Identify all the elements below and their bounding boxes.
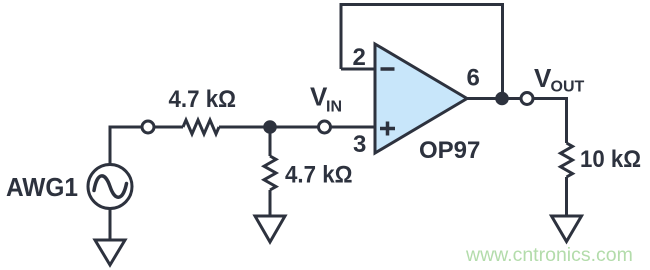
svg-text:3: 3	[353, 131, 366, 158]
svg-text:6: 6	[467, 65, 480, 92]
wire pin2 stub	[341, 68, 375, 71]
svg-text:OUT: OUT	[551, 79, 585, 96]
terminal circle VIN	[319, 121, 331, 133]
op-amp plus sign	[380, 122, 395, 136]
resistor R1 4.7k horizontal	[183, 120, 219, 134]
source AWG1 circle	[88, 165, 132, 209]
svg-text:AWG1: AWG1	[6, 172, 78, 202]
ground middle	[255, 216, 285, 242]
svg-text:4.7 kΩ: 4.7 kΩ	[169, 86, 237, 113]
svg-text:V: V	[534, 63, 552, 93]
junction node output	[495, 92, 509, 106]
svg-text:OP97: OP97	[419, 137, 480, 164]
ground AWG1	[95, 240, 125, 265]
sine wave	[94, 176, 127, 197]
resistor R3 10k vertical	[561, 143, 573, 177]
ground output	[552, 216, 582, 242]
terminal circle input	[142, 121, 154, 133]
op-amp U1 triangle	[375, 44, 467, 153]
wire AWG1 bottom	[109, 208, 112, 240]
wire R3 to ground	[565, 177, 568, 216]
wire AWG1 to input node	[110, 127, 183, 165]
terminal circle VOUT	[521, 93, 533, 105]
wire output	[467, 99, 567, 144]
svg-text:2: 2	[353, 44, 366, 71]
op-amp minus sign	[381, 67, 395, 71]
svg-text:4.7 kΩ: 4.7 kΩ	[285, 162, 353, 189]
junction node input	[263, 120, 277, 134]
svg-text:www.cntronics.com: www.cntronics.com	[465, 244, 633, 266]
wire R2 to ground	[269, 190, 272, 216]
svg-text:IN: IN	[326, 99, 342, 116]
wire R1 to op-amp pin3	[219, 126, 375, 129]
feedback loop wire	[341, 5, 503, 99]
svg-text:10 kΩ: 10 kΩ	[580, 146, 641, 173]
wire node to R2	[269, 127, 272, 156]
resistor R2 4.7k vertical	[264, 156, 276, 190]
